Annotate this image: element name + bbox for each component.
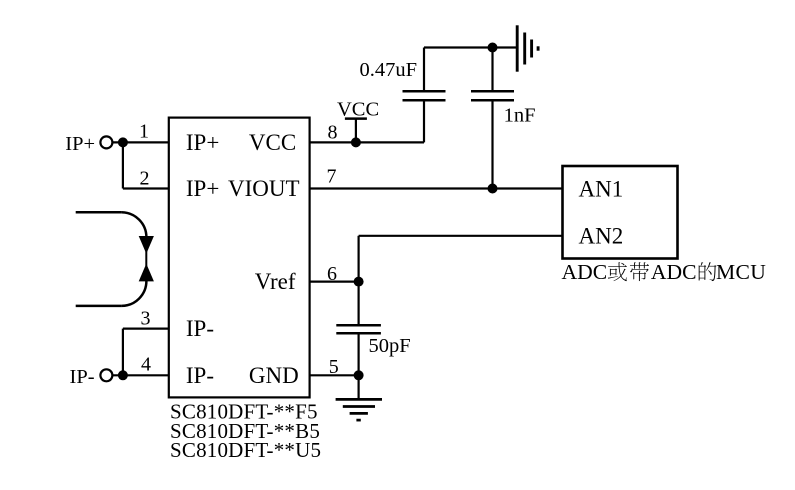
svg-text:0.47uF: 0.47uF bbox=[360, 59, 418, 81]
svg-text:1nF: 1nF bbox=[504, 105, 536, 127]
svg-text:VCC: VCC bbox=[337, 99, 379, 121]
svg-text:IP-: IP- bbox=[70, 366, 95, 388]
terminal IP+ circle bbox=[100, 136, 112, 148]
svg-text:IP+: IP+ bbox=[186, 130, 219, 155]
wire pin 7 VIOUT to AN1 bbox=[310, 187, 563, 189]
wire pin 2 bbox=[123, 187, 169, 189]
svg-text:1: 1 bbox=[139, 121, 149, 143]
junction VIOUT node bbox=[488, 184, 498, 194]
svg-text:IP+: IP+ bbox=[65, 133, 95, 155]
wire IP- vertical bbox=[122, 329, 124, 376]
svg-text:2: 2 bbox=[140, 167, 150, 189]
wire Vref to AN2 bbox=[359, 235, 563, 237]
caption CJK char dai bbox=[630, 262, 649, 281]
junction top ground node bbox=[488, 43, 498, 53]
svg-text:MCU: MCU bbox=[716, 260, 766, 284]
svg-text:IP-: IP- bbox=[186, 316, 214, 341]
svg-text:IP+: IP+ bbox=[186, 176, 219, 201]
svg-text:4: 4 bbox=[141, 353, 151, 375]
capacitor C3 50pF plates bbox=[336, 324, 381, 327]
wire C1 lower lead bbox=[423, 100, 425, 142]
capacitor C2 1nF plates bbox=[471, 90, 514, 93]
junction VCC node bbox=[351, 137, 361, 147]
svg-text:ADC: ADC bbox=[651, 260, 697, 284]
IC U1 body bbox=[169, 118, 310, 398]
caption CJK char huo bbox=[608, 262, 627, 281]
terminal IP- circle bbox=[100, 369, 112, 381]
junction GND node bbox=[354, 370, 364, 380]
wire pin 5 GND bbox=[310, 374, 359, 376]
svg-text:VCC: VCC bbox=[249, 130, 296, 155]
current arrow upper triangle bbox=[139, 236, 154, 254]
current arrow lower triangle bbox=[139, 264, 154, 282]
svg-text:GND: GND bbox=[249, 363, 299, 388]
svg-text:ADC: ADC bbox=[562, 260, 608, 284]
primary current path symbol bbox=[76, 212, 147, 306]
junction IP+ node bbox=[118, 137, 128, 147]
wire VCC stub bbox=[355, 119, 357, 143]
junction Vref node bbox=[354, 277, 364, 287]
svg-text:AN1: AN1 bbox=[579, 177, 624, 202]
chassis ground top right bbox=[517, 25, 538, 71]
wire pin 4 bbox=[112, 374, 169, 376]
svg-text:AN2: AN2 bbox=[579, 223, 624, 248]
wire Vref vertical up bbox=[358, 236, 360, 282]
svg-text:50pF: 50pF bbox=[369, 335, 411, 357]
wire pin 8 bbox=[310, 141, 424, 143]
wire pin 3 bbox=[123, 328, 169, 330]
svg-text:5: 5 bbox=[329, 356, 339, 378]
wire C3 lower lead bbox=[358, 333, 360, 375]
ADC block body bbox=[563, 166, 678, 259]
wire pin 1 bbox=[112, 141, 169, 143]
wire C3 upper lead bbox=[358, 282, 360, 326]
VCC power bar bbox=[345, 117, 367, 120]
capacitor C1 0.47uF plates bbox=[403, 90, 446, 93]
wire top to ground bbox=[424, 46, 517, 48]
svg-text:8: 8 bbox=[328, 122, 338, 144]
svg-text:3: 3 bbox=[141, 307, 151, 329]
svg-text:VIOUT: VIOUT bbox=[228, 176, 300, 201]
wire C2 upper lead bbox=[491, 48, 493, 92]
caption CJK char de bbox=[699, 262, 717, 281]
wire pin 6 bbox=[310, 281, 359, 283]
wire ground stub bbox=[358, 375, 360, 399]
svg-text:Vref: Vref bbox=[255, 269, 296, 294]
svg-text:6: 6 bbox=[327, 263, 337, 285]
svg-text:IP-: IP- bbox=[186, 363, 214, 388]
wire C2 lower lead bbox=[491, 100, 493, 188]
wire IP+ vertical bbox=[122, 142, 124, 188]
wire C1 upper lead bbox=[423, 48, 425, 92]
svg-text:SC810DFT-**U5: SC810DFT-**U5 bbox=[170, 438, 321, 462]
junction IP- node bbox=[118, 370, 128, 380]
earth ground bottom bbox=[336, 399, 382, 420]
svg-text:7: 7 bbox=[327, 166, 337, 188]
